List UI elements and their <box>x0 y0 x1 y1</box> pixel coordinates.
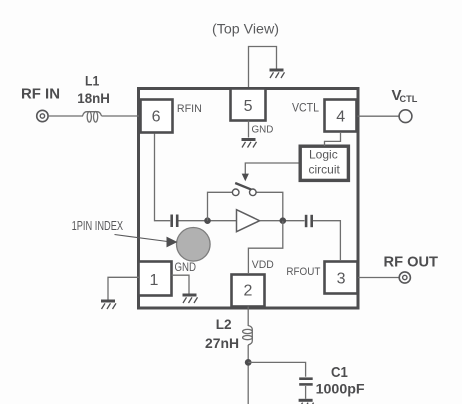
svg-text:C1: C1 <box>331 365 348 381</box>
arrow 1pin index <box>115 235 168 242</box>
svg-text:RF OUT: RF OUT <box>384 254 439 271</box>
pin 4 <box>325 100 357 132</box>
op-amp buffer <box>237 210 260 232</box>
wire pin3 to RF OUT terminal <box>358 277 399 279</box>
pin 3 <box>325 262 358 294</box>
pin 6 <box>141 100 173 133</box>
svg-text:RF IN: RF IN <box>21 86 60 103</box>
node L2 junction <box>245 359 252 366</box>
wire pin4 to VCTL terminal <box>358 115 400 117</box>
ground inside right of pin1 <box>183 295 198 303</box>
wire switch right leg <box>256 192 283 217</box>
wire pin5 bottom to ground <box>248 121 250 138</box>
wire pin6 down to cap row <box>155 134 171 221</box>
svg-text:2: 2 <box>244 283 253 300</box>
svg-text:RFOUT: RFOUT <box>286 266 320 278</box>
svg-text:GND: GND <box>175 260 197 274</box>
svg-text:GND: GND <box>252 125 274 136</box>
wire top from pin 5 up and over to ground <box>249 47 277 89</box>
terminal V CTL <box>399 110 412 123</box>
pin 1 <box>139 262 172 296</box>
ground top right <box>270 70 285 78</box>
svg-text:4: 4 <box>336 108 345 125</box>
capacitor C1 <box>299 379 313 385</box>
wire RF IN to L1 <box>48 115 83 117</box>
node right junction <box>280 217 287 224</box>
node left junction <box>204 217 211 224</box>
svg-text:18nH: 18nH <box>77 90 110 106</box>
1 pin index circle <box>177 228 211 262</box>
pin 2 <box>232 275 265 307</box>
wire switch left leg <box>208 192 233 220</box>
arrowhead logic->switch <box>242 174 249 182</box>
wire right junction to pin 2 (VDD) <box>248 221 282 274</box>
wire C1 to ground <box>305 386 307 399</box>
svg-text:6: 6 <box>152 108 161 125</box>
svg-text:1PIN INDEX: 1PIN INDEX <box>72 218 124 233</box>
terminal RF IN <box>37 110 48 121</box>
wire L2 to junction <box>247 345 249 404</box>
capacitor left <box>172 215 178 228</box>
inductor L2 <box>243 326 253 345</box>
capacitor right <box>306 215 312 227</box>
terminal RF OUT <box>399 272 410 283</box>
svg-text:circuit: circuit <box>309 163 341 177</box>
chip outline <box>139 89 359 309</box>
svg-text:L1: L1 <box>85 72 99 88</box>
svg-text:(Top View): (Top View) <box>212 21 279 37</box>
wire pin2 down to L2 <box>247 307 249 327</box>
ground below pin 5 <box>242 140 257 148</box>
wire cap right to pin3 <box>313 221 341 261</box>
svg-text:L2: L2 <box>216 316 232 332</box>
switch contacts <box>232 189 239 196</box>
wire pin1 right to ground inside <box>172 275 190 293</box>
wire pin4 to logic <box>325 133 341 146</box>
switch blade <box>235 183 251 189</box>
ground outside left <box>101 301 116 309</box>
svg-text:VDD: VDD <box>252 259 274 271</box>
svg-text:27nH: 27nH <box>205 335 239 351</box>
pin 5 <box>231 89 266 121</box>
wire cap to amp input <box>179 220 237 222</box>
ground below C1 (clipped) <box>299 400 314 404</box>
wire logic to switch with arrow <box>245 163 300 174</box>
wire L1 to pin 6 <box>102 115 140 117</box>
svg-text:3: 3 <box>337 270 346 287</box>
svg-text:RFIN: RFIN <box>177 103 202 115</box>
svg-text:Logic: Logic <box>309 147 338 161</box>
wire pin1 left to ground outside <box>108 277 140 299</box>
wire amp out to right junction <box>260 220 305 222</box>
svg-text:1: 1 <box>150 272 159 289</box>
svg-text:1000pF: 1000pF <box>316 381 365 397</box>
svg-text:VCTL: VCTL <box>292 103 320 115</box>
wire junction to C1 <box>248 362 305 376</box>
svg-text:CTL: CTL <box>400 94 418 105</box>
logic circuit box <box>300 146 348 180</box>
inductor L1 <box>83 112 102 123</box>
svg-text:5: 5 <box>244 98 253 115</box>
